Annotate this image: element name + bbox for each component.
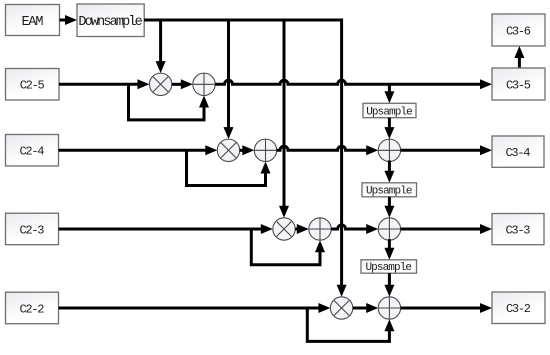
svg-text:C2-2: C2-2 — [20, 302, 45, 316]
box Upsample3 — [361, 260, 417, 273]
box Downsample — [77, 4, 144, 37]
wire C2-3 to X3 — [59, 224, 273, 234]
adder P1 — [193, 73, 215, 95]
adder Q3 — [378, 218, 400, 240]
box C2-4 — [6, 135, 59, 167]
adder Q2 — [378, 139, 400, 161]
box Upsample1 — [363, 103, 416, 117]
multiplier X2 — [217, 139, 239, 161]
wire C2-2 to X4 — [59, 303, 331, 313]
box C3-4 — [492, 136, 544, 167]
wire row1 junction down to Upsample1 — [384, 83, 394, 103]
wire drop to multiplier X4 — [337, 19, 347, 297]
wire X1 to P1 — [172, 79, 193, 89]
multiplier X4 — [330, 297, 352, 319]
svg-text:Downsample: Downsample — [78, 15, 142, 30]
box Upsample2 — [362, 183, 417, 197]
adder P2 — [254, 139, 276, 161]
wire Q3 down to Upsample3 — [384, 239, 394, 260]
svg-text:C3-2: C3-2 — [506, 302, 531, 316]
adder P4 — [378, 297, 400, 319]
svg-text:C3-6: C3-6 — [506, 24, 531, 38]
wire residual loop row4 — [307, 308, 394, 341]
box C2-2 — [6, 292, 59, 324]
box C3-5 — [492, 68, 545, 100]
wire X4 to P4 — [353, 303, 378, 313]
wire P3 to Q3 with hop — [331, 224, 378, 234]
wire residual loop row1 — [129, 84, 210, 120]
wire drop to multiplier X3 — [279, 19, 289, 218]
adder P3 — [309, 218, 331, 240]
wire Upsample1 to Q2 — [384, 118, 394, 139]
svg-text:C3-5: C3-5 — [506, 78, 531, 92]
svg-text:C2-3: C2-3 — [20, 223, 45, 237]
box C3-6 — [492, 14, 545, 46]
svg-text:C3-3: C3-3 — [506, 223, 531, 237]
arrow C3-5 to C3-6 — [514, 46, 524, 69]
wire X2 to P2 — [240, 145, 255, 155]
wire P2 to Q2 with hops — [277, 145, 379, 155]
svg-text:C2-5: C2-5 — [20, 79, 45, 93]
wire Upsample2 to Q3 — [384, 197, 394, 218]
box C2-3 — [6, 213, 59, 245]
svg-text:Upsample: Upsample — [366, 106, 412, 118]
wire C2-4 to X2 — [59, 145, 218, 155]
wire X3 to P3 — [295, 224, 309, 234]
wire Upsample3 to P4 — [384, 273, 394, 297]
wire Q2 to C3-4 — [401, 145, 492, 155]
wire top bus from Downsample — [144, 19, 342, 22]
wire P1 to C3-5 with hops — [215, 79, 492, 89]
svg-text:EAM: EAM — [22, 15, 44, 30]
box C2-5 — [6, 69, 60, 101]
box EAM — [6, 5, 60, 36]
wire Q2 down to Upsample2 — [384, 161, 394, 183]
multiplier X1 — [149, 73, 171, 95]
svg-text:C2-4: C2-4 — [20, 145, 45, 159]
box C3-2 — [492, 292, 545, 324]
svg-text:Upsample: Upsample — [366, 186, 412, 198]
wire P4 to C3-2 — [401, 303, 492, 313]
svg-text:Upsample: Upsample — [365, 262, 411, 274]
wire C2-5 to X1 — [59, 79, 149, 89]
wire drop to multiplier X2 — [224, 19, 234, 140]
box C3-3 — [492, 214, 544, 245]
svg-text:C3-4: C3-4 — [506, 146, 531, 160]
wire residual loop row3 — [251, 229, 325, 265]
wire drop to multiplier X1 — [156, 19, 166, 74]
multiplier X3 — [273, 218, 295, 240]
wire Q3 to C3-3 — [401, 224, 492, 234]
wire residual loop row2 — [187, 150, 271, 185]
arrow EAM to Downsample — [60, 15, 78, 25]
